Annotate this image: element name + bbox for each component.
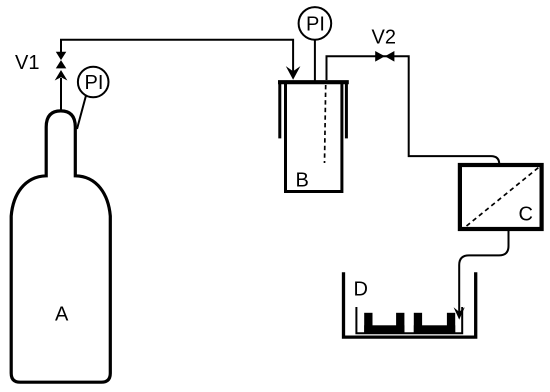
valve V1 bbox=[56, 52, 67, 69]
tray D inner dish bbox=[356, 307, 462, 333]
wire V1 to vessel B bbox=[61, 40, 293, 74]
pressure gauge PI left bbox=[77, 67, 108, 129]
svg-text:V1: V1 bbox=[15, 52, 39, 74]
svg-text:B: B bbox=[296, 170, 309, 192]
wire PI stem bbox=[314, 40, 316, 82]
svg-text:PI: PI bbox=[85, 72, 104, 94]
sample holder block left bbox=[364, 313, 404, 334]
arrow into V1 bbox=[55, 70, 68, 81]
wire B to V2 to C bbox=[327, 56, 500, 165]
svg-text:PI: PI bbox=[306, 14, 325, 36]
tray D outer bbox=[344, 272, 476, 337]
svg-text:V2: V2 bbox=[372, 27, 396, 49]
pressure gauge PI top bbox=[299, 7, 332, 40]
svg-text:A: A bbox=[55, 304, 69, 326]
sample holder block right bbox=[414, 313, 455, 334]
wire cylinder to V1 bbox=[60, 78, 62, 111]
svg-text:C: C bbox=[519, 204, 533, 226]
valve V2 bbox=[375, 51, 394, 62]
vessel B bbox=[278, 81, 349, 192]
arrow into vessel B bbox=[286, 66, 301, 80]
svg-text:D: D bbox=[354, 279, 368, 301]
gas cylinder A bbox=[11, 111, 110, 382]
membrane unit C bbox=[460, 165, 542, 229]
wire C to tray D bbox=[459, 231, 508, 316]
arrow into tray D bbox=[454, 307, 465, 319]
